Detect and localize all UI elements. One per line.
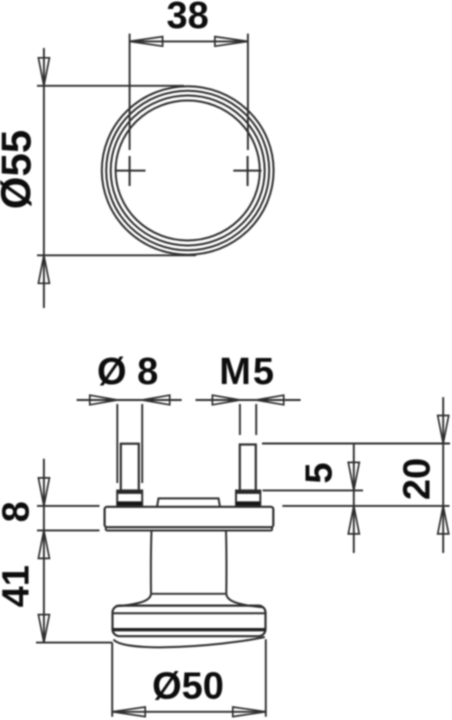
- svg-text:Ø 8: Ø 8: [97, 351, 158, 393]
- right stud collar top band: [237, 491, 260, 494]
- dimension 5 vertical line: [353, 444, 355, 554]
- right extension line at flange top: [282, 505, 449, 507]
- svg-text:5: 5: [299, 462, 341, 483]
- dimension 5 bottom arrow: [348, 506, 359, 534]
- dimension 8 bottom extension line: [37, 529, 100, 531]
- dimension Ø50 left extension line: [111, 643, 113, 717]
- dimension Ø50 left arrow: [112, 707, 145, 717]
- dimension 8 bottom arrow / 41 top arrow: [38, 530, 49, 558]
- dimension Ø55 top extension line: [37, 85, 184, 87]
- dimension 8 top extension line: [37, 505, 100, 507]
- dimension Ø50 line: [112, 711, 266, 713]
- dimension Ø55 top arrow: [38, 58, 49, 86]
- neck right edge: [225, 531, 227, 594]
- right stud M5 shaft: [240, 445, 256, 491]
- knob base Ø50 outline: [113, 606, 266, 637]
- dimension M5 extension lines: [240, 404, 256, 435]
- knob base domed bottom arc: [114, 637, 265, 647]
- dimension 8 / 41 vertical line (left): [43, 459, 45, 643]
- dimension 38 left arrow: [130, 37, 163, 47]
- left hole center cross: [116, 156, 146, 186]
- right stud collar bottom dark band: [236, 501, 260, 505]
- dimension 41 bottom arrow: [38, 615, 49, 643]
- dimension Ø50 right arrow: [233, 707, 266, 717]
- rosette flange plate (8 thick, side view): [105, 507, 274, 527]
- right extension line at collar top (5 dim): [263, 489, 364, 491]
- dimension Ø 8 right arrow: [142, 395, 170, 405]
- flange bottom lip line: [106, 527, 272, 530]
- neck flare transition line: [151, 593, 226, 595]
- svg-text:M5: M5: [219, 351, 276, 393]
- dimension 20 bottom arrow: [438, 506, 449, 534]
- left pin collar top band: [118, 491, 141, 494]
- dimension 38 right arrow: [215, 37, 248, 47]
- dimension Ø55 vertical line: [43, 48, 45, 308]
- svg-text:20: 20: [397, 458, 439, 500]
- dimension Ø55 bottom arrow: [38, 255, 49, 283]
- dimension 5 top arrow: [348, 462, 359, 490]
- dimension Ø 8 line (top of side view): [77, 399, 182, 401]
- rosette ring circle 2: [106, 91, 269, 251]
- neck flare right curve: [226, 594, 262, 607]
- left pin shaft: [121, 444, 139, 491]
- svg-text:38: 38: [166, 0, 208, 37]
- rosette ring circle 3: [111, 96, 265, 246]
- dimension 20 top arrow: [438, 416, 449, 444]
- svg-text:41: 41: [0, 565, 38, 607]
- dimension 38 extension lines: [130, 34, 248, 150]
- dimension 41 bottom extension line: [36, 642, 112, 644]
- hub boss on flange: [157, 498, 220, 506]
- knob rosette outer circle Ø55 (top view): [102, 86, 274, 254]
- dimension M5 line: [196, 399, 301, 401]
- knob base inner line 1: [113, 612, 266, 614]
- svg-text:8: 8: [0, 501, 38, 522]
- neck flare left curve: [116, 594, 152, 607]
- dimension M5 left arrow: [212, 395, 240, 405]
- dimension Ø50 right extension line: [265, 639, 267, 716]
- dimension Ø55 bottom extension line: [37, 254, 196, 256]
- dimension Ø 8 extension lines: [117, 404, 142, 483]
- right hole center cross: [233, 156, 261, 186]
- right extension line at stud top (20 dim): [262, 443, 450, 445]
- svg-text:Ø50: Ø50: [152, 666, 224, 708]
- dimension M5 right arrow: [256, 395, 284, 405]
- svg-text:Ø55: Ø55: [0, 130, 40, 209]
- left pin collar bottom dark band: [117, 501, 142, 505]
- knob base inner thick line 2: [113, 628, 266, 631]
- dimension 8 top arrow: [38, 478, 49, 506]
- left pin collar Ø8: [117, 491, 142, 506]
- dimension 20 vertical line: [442, 397, 444, 553]
- right stud collar: [236, 491, 260, 506]
- dimension Ø 8 left arrow: [90, 395, 118, 405]
- neck left edge: [150, 531, 153, 594]
- rosette inner circle 4: [116, 101, 260, 241]
- dimension 38 line: [130, 40, 248, 42]
